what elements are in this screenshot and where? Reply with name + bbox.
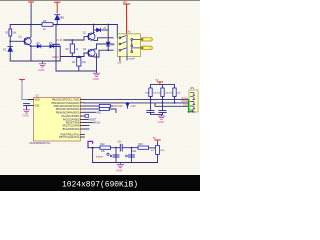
svg-text:100k: 100k <box>131 150 137 153</box>
zener diode D5 (horizontal) <box>97 28 101 31</box>
diode D7 (small vertical) <box>126 103 129 108</box>
svg-text:5V: 5V <box>155 79 158 82</box>
wire bottom loop <box>56 54 97 71</box>
relay bottom pins <box>119 57 121 61</box>
capacitor C7 <box>128 155 134 157</box>
wire collector up <box>93 25 95 33</box>
wire drop 1 <box>115 148 117 163</box>
connector JP1 <box>188 90 198 112</box>
wire <box>30 5 32 25</box>
svg-text:GND: GND <box>116 169 122 173</box>
zener diode D1 <box>55 15 60 25</box>
resistor R2 (vertical) <box>70 44 74 53</box>
pin VSS <box>29 105 34 107</box>
resistor R15 (inline horizontal) <box>99 107 109 110</box>
power symbol VCC5 <box>155 140 161 143</box>
wire <box>122 147 138 149</box>
wire <box>78 57 80 58</box>
diode D6 (vertical) <box>106 42 109 46</box>
wire pin row8 <box>85 122 94 124</box>
svg-text:button: button <box>96 155 104 159</box>
resistor R12 (vertical) <box>161 88 164 97</box>
ground GND5 <box>117 163 124 168</box>
svg-text:R9: R9 <box>43 19 47 23</box>
svg-text:GPIO: GPIO <box>52 55 59 59</box>
node junction base <box>9 40 11 42</box>
wire base row 2 <box>60 56 84 58</box>
wire <box>78 66 80 71</box>
wire <box>88 147 100 149</box>
wire <box>53 24 117 26</box>
wire base row 1 <box>64 39 84 41</box>
wire R12 drop <box>162 97 164 111</box>
power symbol VCC4 <box>20 79 25 82</box>
wire row A from MCU <box>85 99 189 101</box>
IC right pin stubs and names <box>80 100 84 138</box>
node junction R2 top <box>71 39 73 41</box>
power symbol VCC2 <box>54 2 60 13</box>
net label box <box>85 115 89 118</box>
wire base jog 2 <box>84 53 89 57</box>
resistor R1 (vertical) <box>9 29 12 36</box>
sheet background <box>0 0 200 176</box>
node junction D7 top <box>127 102 129 104</box>
wire base <box>10 40 25 42</box>
svg-text:D6: D6 <box>111 43 115 47</box>
resistor R22 (horizontal) <box>100 146 111 149</box>
svg-text:BKGD: BKGD <box>94 123 101 125</box>
wire <box>26 106 28 110</box>
node junction <box>92 147 94 149</box>
wire <box>107 46 109 50</box>
wire <box>149 147 156 149</box>
node junction <box>107 49 109 51</box>
wire pin row5 <box>85 111 97 113</box>
transistor Q2 <box>88 33 95 41</box>
wire W1 corner to relay pin1 <box>116 25 118 38</box>
ground GND3 <box>158 115 165 120</box>
node junction <box>162 102 164 104</box>
svg-text:Col1: Col1 <box>183 104 189 107</box>
wire cap rail <box>151 113 163 115</box>
capacitor C3 <box>159 111 166 113</box>
svg-text:PB4/ADC8P4/MISO1: PB4/ADC8P4/MISO1 <box>56 111 80 114</box>
connector pins <box>190 92 194 112</box>
node junction W1-x57 <box>56 24 58 26</box>
capacitor C4 <box>24 104 30 106</box>
pin VDD <box>28 99 34 101</box>
wire emitter down <box>30 46 32 61</box>
node junction <box>150 99 152 101</box>
wire <box>150 85 152 88</box>
wire diode row <box>31 45 37 47</box>
pin name rows <box>51 99 80 139</box>
resistor R13 (vertical) <box>173 88 176 97</box>
resistor R24 (vertical) <box>156 145 160 154</box>
caption bar <box>0 175 200 191</box>
svg-text:ON/OFF: ON/OFF <box>114 105 124 108</box>
svg-text:cutoff: cutoff <box>129 57 135 60</box>
power wire +12V (red) <box>126 4 128 34</box>
power symbol +12V <box>124 3 130 5</box>
wire base jog <box>84 37 89 40</box>
wire pin row4 <box>85 108 100 110</box>
wire <box>41 45 50 47</box>
diode D4 <box>50 45 54 48</box>
svg-text:IRQ: IRQ <box>97 112 101 114</box>
resistor R23 (horizontal) <box>138 146 149 149</box>
switch contact circle <box>107 153 109 155</box>
wire <box>162 85 164 88</box>
node junction emitter <box>30 45 32 47</box>
svg-text:RESET: RESET <box>89 120 97 122</box>
node junction <box>174 102 176 104</box>
wire emitter row to relay <box>94 50 113 57</box>
wire <box>9 51 11 61</box>
resistor R3 (vertical) <box>77 58 81 67</box>
svg-text:MC9S08SH8CTG: MC9S08SH8CTG <box>30 141 51 145</box>
capacitor C2 <box>147 111 154 113</box>
svg-text:coil-: coil- <box>117 61 122 64</box>
svg-text:5V: 5V <box>59 16 62 20</box>
node junction <box>71 56 73 58</box>
IC U2 body <box>34 98 81 142</box>
svg-text:GND: GND <box>38 68 44 72</box>
wire <box>107 25 109 43</box>
ground GND4 <box>23 110 29 113</box>
svg-text:1024x897(690KiB): 1024x897(690KiB) <box>62 180 138 189</box>
svg-text:BKGD/MS/PA4: BKGD/MS/PA4 <box>63 128 80 131</box>
resistor R14 (inline horizontal) <box>99 104 110 107</box>
svg-text:+12V: +12V <box>130 105 136 108</box>
wire <box>71 40 73 44</box>
wire zener row <box>94 29 109 31</box>
wire pin row9 <box>85 125 90 127</box>
svg-text:JP1: JP1 <box>190 87 195 90</box>
wire <box>157 154 159 162</box>
wire pin row10 <box>85 128 90 130</box>
wire <box>110 105 113 107</box>
wire pin row6 <box>85 115 89 117</box>
svg-text:R23: R23 <box>138 143 143 146</box>
svg-text:VSS: VSS <box>35 105 40 108</box>
wire drop 2 <box>130 148 132 163</box>
wire button drop <box>92 148 94 163</box>
wire collector to relay <box>94 44 113 49</box>
wire <box>9 36 11 46</box>
sheet top border <box>0 0 200 2</box>
wire bottom rail <box>93 162 158 164</box>
node junction <box>115 147 117 149</box>
wire row B from MCU <box>85 102 189 104</box>
power symbol VCC3 <box>157 82 162 85</box>
transistor Q1 <box>24 37 31 46</box>
relay K1 body <box>118 34 141 57</box>
wire W1 top rail <box>10 24 42 26</box>
wire <box>54 45 61 47</box>
wire <box>111 147 121 149</box>
wire collector <box>30 25 32 38</box>
svg-text:PB7/TCLK/EXTAL: PB7/TCLK/EXTAL <box>59 136 80 139</box>
ground GND2 <box>93 71 99 76</box>
svg-text:5V: 5V <box>153 137 156 140</box>
power symbol VCC1 <box>29 2 34 5</box>
node junction <box>131 147 133 149</box>
wire left rail <box>9 25 11 30</box>
wire <box>85 119 89 121</box>
node junction W1-x31 <box>30 24 32 26</box>
node junction <box>107 24 109 26</box>
wire bottom rail <box>10 60 60 62</box>
svg-text:GND: GND <box>157 120 163 124</box>
wire emitter to relay <box>94 38 113 41</box>
ground GND1 <box>39 61 46 67</box>
resistor R9 (horizontal, inline on W1) <box>42 23 53 27</box>
capacitor C6 <box>113 155 119 157</box>
svg-text:R22: R22 <box>100 143 105 146</box>
wire <box>174 85 176 88</box>
resistor R11 (vertical) <box>149 88 152 97</box>
wire R13 drop <box>174 97 176 103</box>
wire R11 drop <box>150 97 152 111</box>
wire <box>59 46 61 61</box>
power wire to VDD <box>22 82 34 100</box>
wire row C jog <box>155 103 189 106</box>
diode D3 <box>37 45 41 48</box>
pad P2 <box>141 46 152 50</box>
node junction <box>93 24 95 26</box>
svg-text:GND: GND <box>93 77 99 81</box>
wire pin row3 <box>85 105 100 107</box>
wire <box>71 53 73 57</box>
wire <box>157 143 159 146</box>
zener diode D2 <box>8 46 13 51</box>
transistor Q3 <box>88 49 95 57</box>
wire 5V feed down <box>55 25 57 72</box>
node junction R3 top <box>78 56 80 58</box>
relay internal contacts <box>119 35 140 56</box>
svg-text:GND: GND <box>22 113 28 117</box>
wire top rail <box>151 84 175 86</box>
pad P1 <box>141 38 152 42</box>
svg-text:VDD: VDD <box>35 99 40 102</box>
capacitor C1 <box>52 44 59 46</box>
wire <box>109 109 116 113</box>
no-ERC marker (purple bracket) <box>88 141 93 147</box>
svg-text:5V IN: 5V IN <box>56 38 63 42</box>
capacitor C5 (series) <box>120 144 122 151</box>
